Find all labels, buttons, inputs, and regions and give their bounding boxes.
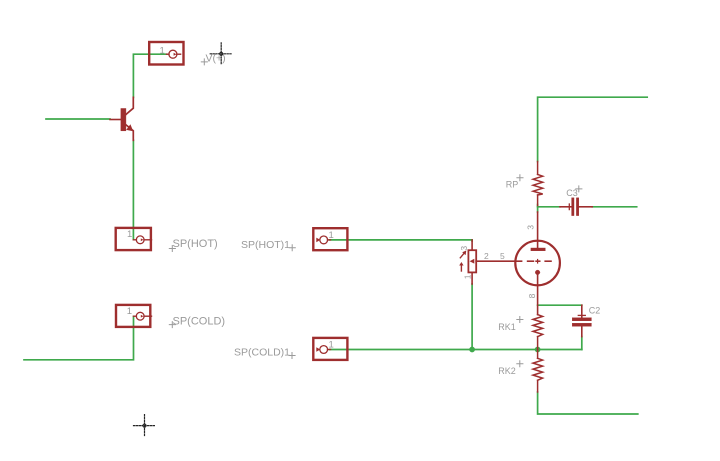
svg-text:3: 3 — [526, 225, 536, 230]
origin cross SP(COLD) — [169, 322, 175, 328]
svg-text:SP(HOT): SP(HOT) — [173, 238, 218, 250]
svg-text:3: 3 — [459, 246, 469, 251]
resistor RP — [533, 162, 543, 206]
origin cross RP — [517, 175, 523, 181]
wire emitter down to SP(HOT) connector — [132, 140, 134, 239]
wire top power rail — [538, 97, 648, 161]
junction RK1/RK2 — [535, 347, 541, 353]
wire C3 right — [592, 206, 637, 208]
origin cross RK2 — [517, 361, 523, 367]
origin cross SP(COLD)1 — [289, 353, 295, 359]
origin cross V(+) — [201, 59, 207, 65]
svg-text:C2: C2 — [589, 305, 601, 315]
wire SP(COLD) connector down-left — [24, 317, 134, 360]
origin cross SP(HOT)1 — [289, 245, 295, 251]
svg-text:RK2: RK2 — [498, 366, 516, 376]
capacitor C2 (polarized) — [572, 305, 591, 336]
potentiometer RT1 — [459, 240, 476, 284]
resistor RK2 — [533, 350, 543, 393]
cursor crosshair bottom — [134, 415, 156, 437]
svg-text:5: 5 — [500, 251, 505, 261]
svg-text:RP: RP — [506, 179, 519, 189]
svg-text:SP(COLD)1: SP(COLD)1 — [234, 347, 290, 359]
connector JP top (pin 1) — [149, 42, 183, 65]
svg-text:1: 1 — [127, 229, 132, 240]
resistor RK1 — [533, 315, 543, 350]
cursor crosshair top — [210, 43, 232, 65]
connector SP(COLD)1 (pin 1) — [313, 338, 347, 360]
wire C2 bottom — [581, 337, 583, 350]
connector SP(HOT) (pin 1) — [116, 228, 152, 250]
origin cross C3 — [576, 186, 582, 192]
svg-text:8: 8 — [527, 293, 537, 298]
vacuum tube V1 (triode) — [476, 212, 560, 315]
wire net V(+) top-left to connector — [133, 54, 166, 97]
svg-text:1: 1 — [329, 230, 334, 241]
svg-text:SP(COLD): SP(COLD) — [173, 316, 226, 328]
wire SP(HOT)1 to pot top — [330, 240, 473, 241]
wire SP(COLD)1 long net — [330, 349, 582, 351]
connector SP(COLD) (pin 1) — [116, 305, 152, 327]
capacitor C3 (polarized) — [560, 198, 592, 216]
svg-text:2: 2 — [484, 251, 489, 261]
svg-text:C3: C3 — [566, 188, 578, 198]
transistor Q1 (NPN) — [110, 97, 133, 140]
svg-text:SP(HOT)1: SP(HOT)1 — [241, 239, 290, 251]
origin cross SP(HOT) — [169, 246, 175, 252]
svg-text:1: 1 — [329, 340, 334, 351]
wire pot bottom to junction — [471, 284, 473, 350]
wire RK2 bottom to right — [538, 392, 638, 414]
origin cross RK1 — [517, 317, 523, 323]
svg-text:RK1: RK1 — [498, 322, 516, 332]
wire cathode branch to C2 — [538, 304, 582, 306]
junction pot/net — [469, 347, 475, 353]
svg-text:1: 1 — [462, 274, 472, 279]
wire node to C3 — [538, 206, 560, 208]
wire base of transistor — [46, 118, 110, 120]
svg-text:1: 1 — [127, 306, 132, 317]
wire RP bottom node — [537, 205, 539, 213]
connector SP(HOT)1 (pin 1) — [313, 228, 347, 250]
svg-text:1: 1 — [160, 46, 165, 57]
